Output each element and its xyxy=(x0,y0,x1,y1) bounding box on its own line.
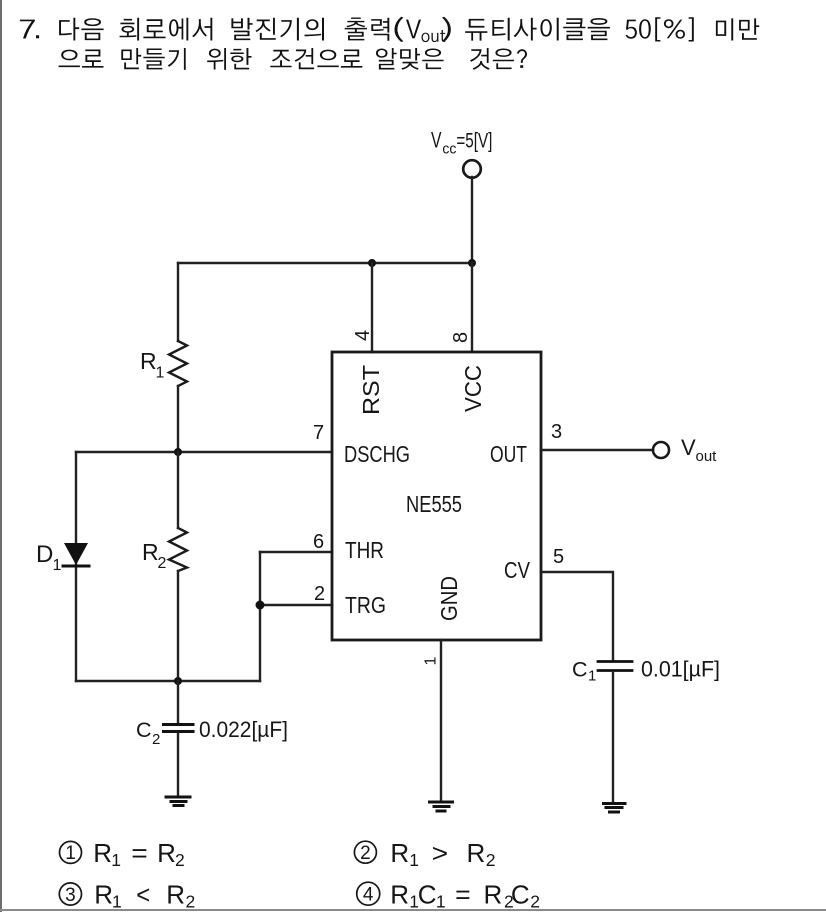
svg-text:3: 3 xyxy=(65,885,76,906)
svg-text:1: 1 xyxy=(65,843,76,864)
svg-text:0.022[µF]: 0.022[µF] xyxy=(199,717,288,742)
svg-text:2: 2 xyxy=(186,891,196,911)
svg-text:C: C xyxy=(418,880,437,910)
svg-text:R: R xyxy=(142,539,159,565)
wire CV (pin5) xyxy=(541,572,613,660)
svg-text:DSCHG: DSCHG xyxy=(344,441,410,467)
ground (pin1) xyxy=(430,802,453,811)
diode D1 xyxy=(63,543,89,566)
svg-text:=5[V]: =5[V] xyxy=(456,130,492,153)
svg-text:2: 2 xyxy=(486,850,496,870)
svg-text:1: 1 xyxy=(156,365,165,382)
svg-text:2: 2 xyxy=(360,843,371,864)
ground (C2) xyxy=(166,797,190,806)
Vcc terminal circle xyxy=(463,160,481,178)
capacitor C2 xyxy=(164,681,194,796)
Vout terminal circle xyxy=(653,442,669,458)
svg-text:1: 1 xyxy=(112,891,122,911)
svg-text:V: V xyxy=(431,128,442,153)
node C2 junction xyxy=(174,677,182,685)
svg-text:C: C xyxy=(136,718,152,742)
svg-text:5: 5 xyxy=(553,546,564,568)
svg-text:out: out xyxy=(696,448,718,465)
svg-text:C: C xyxy=(572,658,588,682)
page left border xyxy=(0,0,2,912)
svg-text:8: 8 xyxy=(450,332,472,343)
answer option 2 xyxy=(354,838,495,870)
svg-text:R: R xyxy=(467,838,486,868)
svg-text:R: R xyxy=(140,348,157,374)
wire left branch down (diode branch) xyxy=(75,452,77,681)
svg-text:R: R xyxy=(94,880,113,910)
svg-text:R: R xyxy=(93,838,112,868)
node pin4 junction xyxy=(368,259,376,267)
top rail wire xyxy=(178,262,472,264)
wire GND (pin1) xyxy=(440,640,442,801)
label R2 xyxy=(142,539,167,572)
svg-text:0.01[µF]: 0.01[µF] xyxy=(641,657,720,682)
svg-text:cc: cc xyxy=(442,141,456,158)
svg-text:CV: CV xyxy=(504,557,531,583)
svg-text:NE555: NE555 xyxy=(406,491,462,517)
svg-text:3: 3 xyxy=(551,421,562,443)
answer option 1 xyxy=(60,838,185,870)
svg-text:TRG: TRG xyxy=(345,592,386,618)
node pin8 junction xyxy=(468,259,476,267)
resistor R1 xyxy=(169,263,187,452)
wire OUT (pin3) xyxy=(541,449,653,451)
svg-text:>: > xyxy=(432,838,449,868)
wire pin 8 xyxy=(471,263,473,352)
capacitor C1 xyxy=(598,662,632,803)
IC NE555 box U1 xyxy=(332,352,541,640)
wire Vcc to top rail xyxy=(471,177,473,263)
svg-text:1: 1 xyxy=(409,850,419,870)
svg-text:GND: GND xyxy=(436,576,462,621)
wire TRG (pin2) xyxy=(260,604,332,606)
label C2 xyxy=(136,718,160,748)
svg-text:4: 4 xyxy=(363,885,374,906)
label D1 xyxy=(36,541,62,574)
wire pin 4 xyxy=(371,263,373,352)
svg-text:R: R xyxy=(157,838,176,868)
svg-text:1: 1 xyxy=(423,657,440,666)
svg-text:7: 7 xyxy=(313,422,324,444)
svg-text:=: = xyxy=(455,880,471,910)
Vcc label xyxy=(431,128,492,158)
svg-text:1: 1 xyxy=(53,557,62,574)
label R1 xyxy=(140,348,165,382)
svg-text:<: < xyxy=(136,880,150,910)
svg-text:R: R xyxy=(390,838,409,868)
node R1/DSCHG junction xyxy=(174,448,182,456)
svg-text:2: 2 xyxy=(152,731,160,748)
svg-text:C: C xyxy=(511,880,530,910)
question text (Korean) xyxy=(36,17,759,70)
svg-text:OUT: OUT xyxy=(490,441,527,467)
svg-text:RST: RST xyxy=(358,365,384,415)
bottom wire xyxy=(76,680,260,682)
svg-text:2: 2 xyxy=(175,850,185,870)
svg-text:2: 2 xyxy=(158,555,167,572)
svg-text:1: 1 xyxy=(436,891,446,911)
svg-text:1: 1 xyxy=(111,850,121,870)
svg-text:VCC: VCC xyxy=(460,365,486,412)
svg-text:R: R xyxy=(484,880,503,910)
svg-text:1: 1 xyxy=(588,668,596,685)
ground (C1) xyxy=(604,804,626,813)
wire THR to TRG vertical xyxy=(259,552,261,681)
wire DSCHG (pin7) xyxy=(76,451,332,453)
svg-text:2: 2 xyxy=(314,583,325,605)
svg-text:4: 4 xyxy=(352,330,374,341)
svg-text:THR: THR xyxy=(345,537,384,563)
label C1 xyxy=(572,658,596,685)
svg-text:D: D xyxy=(36,541,53,568)
answer option 4 xyxy=(357,880,540,912)
label Vout xyxy=(681,435,717,465)
page bottom border xyxy=(0,909,826,911)
node TRG junction xyxy=(256,601,265,610)
svg-text:6: 6 xyxy=(313,531,324,553)
svg-text:R: R xyxy=(390,880,409,910)
svg-text:=: = xyxy=(131,838,148,868)
svg-text:V: V xyxy=(681,435,696,460)
answer option 3 xyxy=(59,880,195,912)
svg-text:2: 2 xyxy=(530,891,540,911)
resistor R2 xyxy=(169,452,187,681)
wire THR (pin6) xyxy=(260,551,332,553)
svg-text:R: R xyxy=(166,880,185,910)
